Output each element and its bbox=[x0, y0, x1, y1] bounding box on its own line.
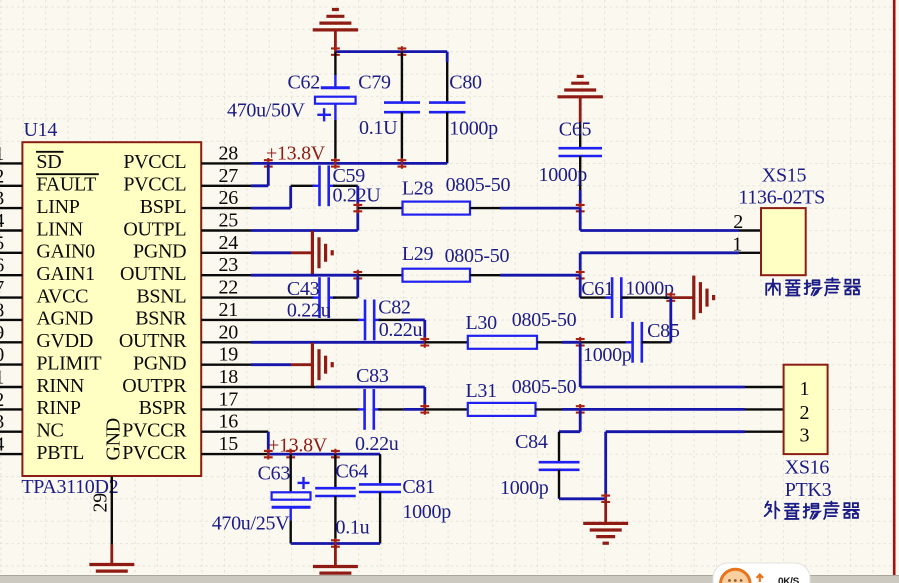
junction +13.8V / pin28 bbox=[264, 158, 273, 169]
wire: pin 25 OUTPL bbox=[201, 229, 358, 231]
wire: OUTPL net to XS15 pin 2 bbox=[580, 208, 761, 230]
svg-text:23: 23 bbox=[219, 254, 239, 276]
svg-text:20: 20 bbox=[219, 321, 239, 343]
svg-text:PVCCR: PVCCR bbox=[122, 420, 187, 442]
svg-text:LINP: LINP bbox=[36, 196, 79, 218]
svg-text:GND: GND bbox=[103, 418, 125, 460]
connector XS16 PTK3 bbox=[784, 365, 832, 501]
ground symbol above C65 bbox=[558, 76, 603, 122]
svg-text:21: 21 bbox=[219, 299, 238, 321]
svg-text:3: 3 bbox=[800, 424, 810, 446]
svg-text:GVDD: GVDD bbox=[36, 330, 93, 352]
inductor L31 0805-50 bbox=[466, 376, 577, 416]
svg-text:L28: L28 bbox=[402, 178, 434, 200]
svg-text:26: 26 bbox=[219, 187, 239, 209]
svg-text:PVCCR: PVCCR bbox=[122, 442, 187, 464]
svg-text:1: 1 bbox=[800, 378, 810, 400]
svg-text:SD: SD bbox=[36, 151, 61, 173]
overlay widget up arrow bbox=[757, 575, 763, 583]
svg-text:1000p: 1000p bbox=[539, 164, 588, 186]
svg-text:C63: C63 bbox=[258, 462, 291, 484]
svg-text:0805-50: 0805-50 bbox=[446, 174, 511, 196]
svg-text:C85: C85 bbox=[647, 320, 680, 342]
overlay widget pill bbox=[713, 563, 810, 583]
svg-text:1000p: 1000p bbox=[625, 278, 674, 300]
capacitor C65 1000p bbox=[539, 119, 603, 209]
svg-text:NC: NC bbox=[36, 420, 63, 442]
svg-text:19: 19 bbox=[219, 344, 239, 366]
XS15 pin number 1 bbox=[732, 234, 742, 256]
capacitor C83 0.22u bbox=[355, 365, 399, 455]
svg-text:OUTNR: OUTNR bbox=[119, 330, 187, 352]
wire: L31 node to XS16 pin 2 bbox=[580, 408, 783, 411]
svg-text:RINN: RINN bbox=[36, 375, 84, 397]
U14 right pin names bbox=[119, 151, 187, 464]
svg-text:FAULT: FAULT bbox=[36, 174, 96, 196]
wire: bottom ground bus C63/C64/C81 bbox=[291, 542, 380, 545]
wire: pin 17 BSPR to C83 bbox=[201, 408, 360, 410]
U14 left pin stubs (pins 1-14) bbox=[0, 163, 22, 454]
svg-text:470u/25V: 470u/25V bbox=[212, 513, 290, 535]
svg-text:28: 28 bbox=[219, 142, 239, 164]
capacitor C59 0.22U bbox=[313, 165, 382, 207]
junction OUTPL / L28 bbox=[353, 203, 362, 214]
wire: L30 node to C85 bbox=[580, 341, 632, 343]
junction L30 node / C85 bbox=[576, 337, 585, 348]
svg-text:PGND: PGND bbox=[133, 241, 186, 263]
wire: pin 27 PVCCL bbox=[201, 185, 268, 187]
svg-text:6: 6 bbox=[0, 255, 4, 277]
svg-text:+13.8V: +13.8V bbox=[266, 143, 326, 165]
svg-text:1: 1 bbox=[0, 143, 4, 165]
svg-text:15: 15 bbox=[219, 433, 239, 455]
ground symbol GND top (above C62) bbox=[313, 10, 358, 52]
wire: C85 right up to ground node bbox=[642, 298, 671, 343]
wire: pin 19 PGND bbox=[201, 364, 313, 366]
svg-text:1000p: 1000p bbox=[402, 501, 451, 523]
svg-text:18: 18 bbox=[219, 366, 239, 388]
junction rail/C64 bbox=[331, 449, 340, 460]
svg-text:C79: C79 bbox=[358, 72, 391, 94]
wire: C82 right to OUTNR bbox=[379, 320, 425, 342]
svg-text:14: 14 bbox=[0, 434, 4, 456]
junction at top rail / C79 bbox=[398, 46, 407, 57]
IC U14 TPA3110D2 body bbox=[22, 142, 201, 476]
svg-text:C84: C84 bbox=[515, 431, 548, 453]
label 外置扬声器 (external speaker) bbox=[765, 502, 859, 519]
svg-text:L30: L30 bbox=[466, 312, 498, 334]
junction C84 / XS16 pin3 / ground bbox=[601, 493, 610, 504]
capacitor C84 1000p bbox=[500, 431, 580, 499]
svg-text:3: 3 bbox=[0, 188, 4, 210]
ground symbol right of C61 bbox=[671, 276, 714, 320]
svg-text:C59: C59 bbox=[333, 165, 366, 187]
wire: OUTPL to L28 bbox=[358, 207, 403, 209]
svg-text:C62: C62 bbox=[288, 72, 320, 94]
inductor L28 0805-50 bbox=[402, 174, 511, 215]
svg-text:AGND: AGND bbox=[36, 308, 93, 330]
svg-text:BSPR: BSPR bbox=[139, 397, 188, 419]
wire: OUTNL to L29 bbox=[358, 274, 403, 276]
svg-text:1000p: 1000p bbox=[449, 118, 498, 140]
svg-text:PVCCL: PVCCL bbox=[123, 174, 186, 196]
svg-text:OUTNL: OUTNL bbox=[120, 263, 186, 285]
svg-text:8: 8 bbox=[0, 299, 4, 321]
svg-text:24: 24 bbox=[219, 232, 239, 254]
ground symbol at pin 24 bbox=[312, 231, 332, 275]
svg-text:LINN: LINN bbox=[36, 218, 83, 240]
wire: pin 18 OUTPR bbox=[201, 387, 425, 409]
svg-text:0805-50: 0805-50 bbox=[512, 309, 577, 331]
svg-text:27: 27 bbox=[219, 165, 239, 187]
inductor L30 0805-50 bbox=[466, 309, 577, 349]
wire: OUTNL down to C61 bbox=[580, 275, 612, 297]
svg-text:GAIN0: GAIN0 bbox=[36, 241, 95, 263]
power net label +13.8V (top) bbox=[266, 143, 326, 165]
svg-text:1136-02TS: 1136-02TS bbox=[738, 187, 825, 209]
capacitor C81 1000p bbox=[359, 454, 451, 543]
svg-text:0805-50: 0805-50 bbox=[512, 376, 577, 398]
svg-text:BSNR: BSNR bbox=[135, 308, 187, 330]
svg-text:29: 29 bbox=[90, 493, 112, 513]
XS16 pin number 2 bbox=[800, 402, 810, 424]
svg-text:PTK3: PTK3 bbox=[785, 479, 832, 501]
svg-text:C43: C43 bbox=[287, 278, 320, 300]
svg-text:+13.8V: +13.8V bbox=[268, 435, 328, 457]
wire: pin 21 BSNR to C82 bbox=[201, 319, 360, 321]
wire: +13.8V rail (pin 28) bbox=[268, 162, 447, 165]
svg-text:AVCC: AVCC bbox=[36, 285, 88, 307]
svg-text:C83: C83 bbox=[356, 365, 389, 387]
capacitor C64 0.1u bbox=[315, 454, 369, 543]
svg-text:OUTPR: OUTPR bbox=[122, 375, 187, 397]
wire: L30 to C85 node bbox=[537, 341, 580, 343]
wire: C61 right to ground node bbox=[621, 296, 671, 298]
svg-text:470u/50V: 470u/50V bbox=[227, 100, 305, 122]
junction OUTNR / C82 / L30 bbox=[420, 337, 429, 348]
svg-text:0K/S: 0K/S bbox=[778, 577, 800, 583]
junction bottom bus / ground bbox=[331, 538, 340, 549]
U14 left pin names bbox=[36, 151, 101, 464]
svg-text:L29: L29 bbox=[402, 243, 434, 265]
capacitor C43 0.22u bbox=[287, 277, 336, 321]
svg-text:0805-50: 0805-50 bbox=[445, 245, 510, 267]
junction at top rail / C62 bbox=[331, 46, 340, 57]
svg-text:GAIN1: GAIN1 bbox=[36, 263, 95, 285]
wire: pin 22 BSNL to C43 bbox=[201, 296, 315, 298]
wire: C59 right to OUTPL net bbox=[333, 186, 358, 231]
svg-text:16: 16 bbox=[219, 411, 239, 433]
svg-text:17: 17 bbox=[219, 388, 239, 410]
wire: +13.8V drop to pin 27 bbox=[267, 163, 270, 185]
svg-text:XS16: XS16 bbox=[785, 457, 830, 479]
junction +13.8V / C62 bbox=[331, 158, 340, 169]
svg-text:4: 4 bbox=[0, 210, 4, 232]
svg-text:0.22u: 0.22u bbox=[355, 433, 399, 455]
XS16 pin number 1 bbox=[800, 378, 810, 400]
wire: top rail C62/C79/C80 tops bbox=[335, 52, 447, 62]
wire: pin 20 OUTNR bbox=[201, 341, 425, 343]
U14 GND pin name (rotated) bbox=[103, 418, 125, 460]
capacitor C61 1000p bbox=[581, 277, 674, 318]
wire: C43 right to OUTNL bbox=[333, 275, 358, 297]
svg-text:C61: C61 bbox=[581, 278, 613, 300]
junction OUTNL / XS15 pin1 / C61 bbox=[576, 270, 585, 281]
bottom window strip bbox=[0, 576, 899, 583]
junction OUTNL / C43 / L29 bbox=[353, 270, 362, 281]
svg-text:10: 10 bbox=[0, 344, 4, 366]
ground symbol at pin 19 bbox=[312, 343, 332, 387]
U14 pin 29 GND lead bbox=[90, 476, 112, 544]
svg-text:2: 2 bbox=[800, 402, 810, 424]
junction OUTPR / C83 / L31 bbox=[420, 404, 429, 415]
overlay widget speed text 0K/S bbox=[778, 577, 800, 583]
svg-text:1: 1 bbox=[732, 234, 742, 256]
wire: C84 tap from L31 node bbox=[559, 409, 580, 431]
svg-text:C65: C65 bbox=[559, 119, 592, 141]
value TPA3110D2 bbox=[21, 476, 118, 498]
designator U14 bbox=[24, 119, 58, 141]
U14 right pin numbers 28..15 bbox=[219, 142, 239, 455]
svg-text:0.1U: 0.1U bbox=[359, 117, 398, 139]
capacitor C62 470u/50V bbox=[227, 52, 356, 164]
svg-text:2: 2 bbox=[733, 211, 743, 233]
overlay widget icon circle bbox=[721, 569, 751, 583]
wire: L31 to XS16 node bbox=[536, 408, 581, 410]
label 内置扬声器 (internal speaker) bbox=[766, 278, 860, 295]
junction rail/C63 bbox=[286, 449, 295, 460]
svg-text:C82: C82 bbox=[378, 297, 410, 319]
wire: L30 node down to XS16 pin 1 bbox=[580, 342, 783, 387]
junction pin15/pin16 bbox=[264, 449, 273, 460]
ground symbol at U14 pin 29 bbox=[89, 545, 134, 583]
svg-text:5: 5 bbox=[0, 232, 4, 254]
wire: XS16 pin 3 to ground bbox=[606, 432, 784, 499]
svg-text:25: 25 bbox=[219, 210, 239, 232]
svg-text:0.22u: 0.22u bbox=[287, 300, 331, 322]
svg-text:C80: C80 bbox=[449, 72, 482, 94]
svg-text:0.22u: 0.22u bbox=[379, 319, 423, 341]
power net label +13.8V (bottom) bbox=[268, 435, 328, 457]
ground symbol below C64 bbox=[313, 544, 358, 583]
capacitor C80 1000p bbox=[429, 62, 498, 163]
connector XS15 1136-02TS bbox=[738, 165, 825, 276]
svg-text:PBTL: PBTL bbox=[36, 442, 84, 464]
sheet border (right) bbox=[893, 0, 896, 576]
svg-text:7: 7 bbox=[0, 277, 4, 299]
capacitor C63 470u/25V bbox=[212, 454, 311, 543]
svg-text:BSNL: BSNL bbox=[136, 285, 186, 307]
XS16 pin number 3 bbox=[800, 424, 810, 446]
svg-text:PLIMIT: PLIMIT bbox=[36, 352, 101, 374]
wire: pin 28 PVCCL to +13.8V bbox=[201, 162, 268, 164]
junction L28 node / C65 bbox=[576, 203, 585, 214]
svg-text:U14: U14 bbox=[24, 119, 58, 141]
svg-text:RINP: RINP bbox=[36, 397, 81, 419]
wire: L29 to XS15 node bbox=[470, 274, 580, 276]
wire: C84 bottom to ground node bbox=[559, 497, 606, 500]
ground symbol below XS16 net bbox=[583, 499, 628, 543]
svg-text:22: 22 bbox=[219, 277, 238, 299]
wire: pin 16 PVCCR bbox=[201, 432, 268, 454]
svg-text:9: 9 bbox=[0, 322, 4, 344]
capacitor C82 0.22u bbox=[358, 297, 422, 341]
wire: OUTNR to L30 bbox=[425, 341, 468, 343]
svg-text:13: 13 bbox=[0, 411, 4, 433]
svg-text:PVCCL: PVCCL bbox=[123, 151, 186, 173]
svg-text:XS15: XS15 bbox=[762, 165, 807, 187]
svg-text:BSPL: BSPL bbox=[140, 196, 187, 218]
svg-text:12: 12 bbox=[0, 389, 4, 411]
wire: C83 right to OUTPR / L31 bbox=[378, 408, 425, 410]
wire: pin 26 BSPL to C59 bbox=[201, 186, 315, 208]
U14 left pin numbers (clipped at edge) bbox=[0, 143, 4, 456]
svg-text:2: 2 bbox=[0, 165, 4, 187]
wire: pin 15 PVCCR / +13.8V rail bottom bbox=[201, 453, 380, 455]
XS15 pin number 2 bbox=[733, 211, 743, 233]
wire: OUTNL net to XS15 pin 1 bbox=[580, 253, 761, 275]
wire: L28 to XS15 node bbox=[470, 207, 580, 209]
svg-text:C81: C81 bbox=[402, 476, 434, 498]
wire: to L31 bbox=[425, 408, 468, 410]
inductor L29 0805-50 bbox=[402, 243, 510, 282]
svg-text:C64: C64 bbox=[336, 461, 369, 483]
svg-text:1000p: 1000p bbox=[500, 477, 549, 499]
svg-text:PGND: PGND bbox=[133, 352, 186, 374]
svg-text:OUTPL: OUTPL bbox=[123, 218, 186, 240]
junction L31 / XS16 pin 2 / C84 bbox=[576, 404, 585, 415]
wire: pin 24 PGND bbox=[201, 252, 313, 254]
junction +13.8V / C79 bbox=[398, 158, 407, 169]
svg-text:1000p: 1000p bbox=[583, 344, 632, 366]
wire: pin 23 OUTNL bbox=[201, 274, 358, 276]
svg-text:0.1u: 0.1u bbox=[336, 517, 370, 539]
capacitor C85 1000p bbox=[583, 320, 680, 366]
svg-text:11: 11 bbox=[0, 367, 4, 389]
capacitor C79 0.1U bbox=[358, 52, 420, 164]
junction C61 / C85 / ground bbox=[666, 292, 675, 303]
svg-text:L31: L31 bbox=[466, 380, 497, 402]
